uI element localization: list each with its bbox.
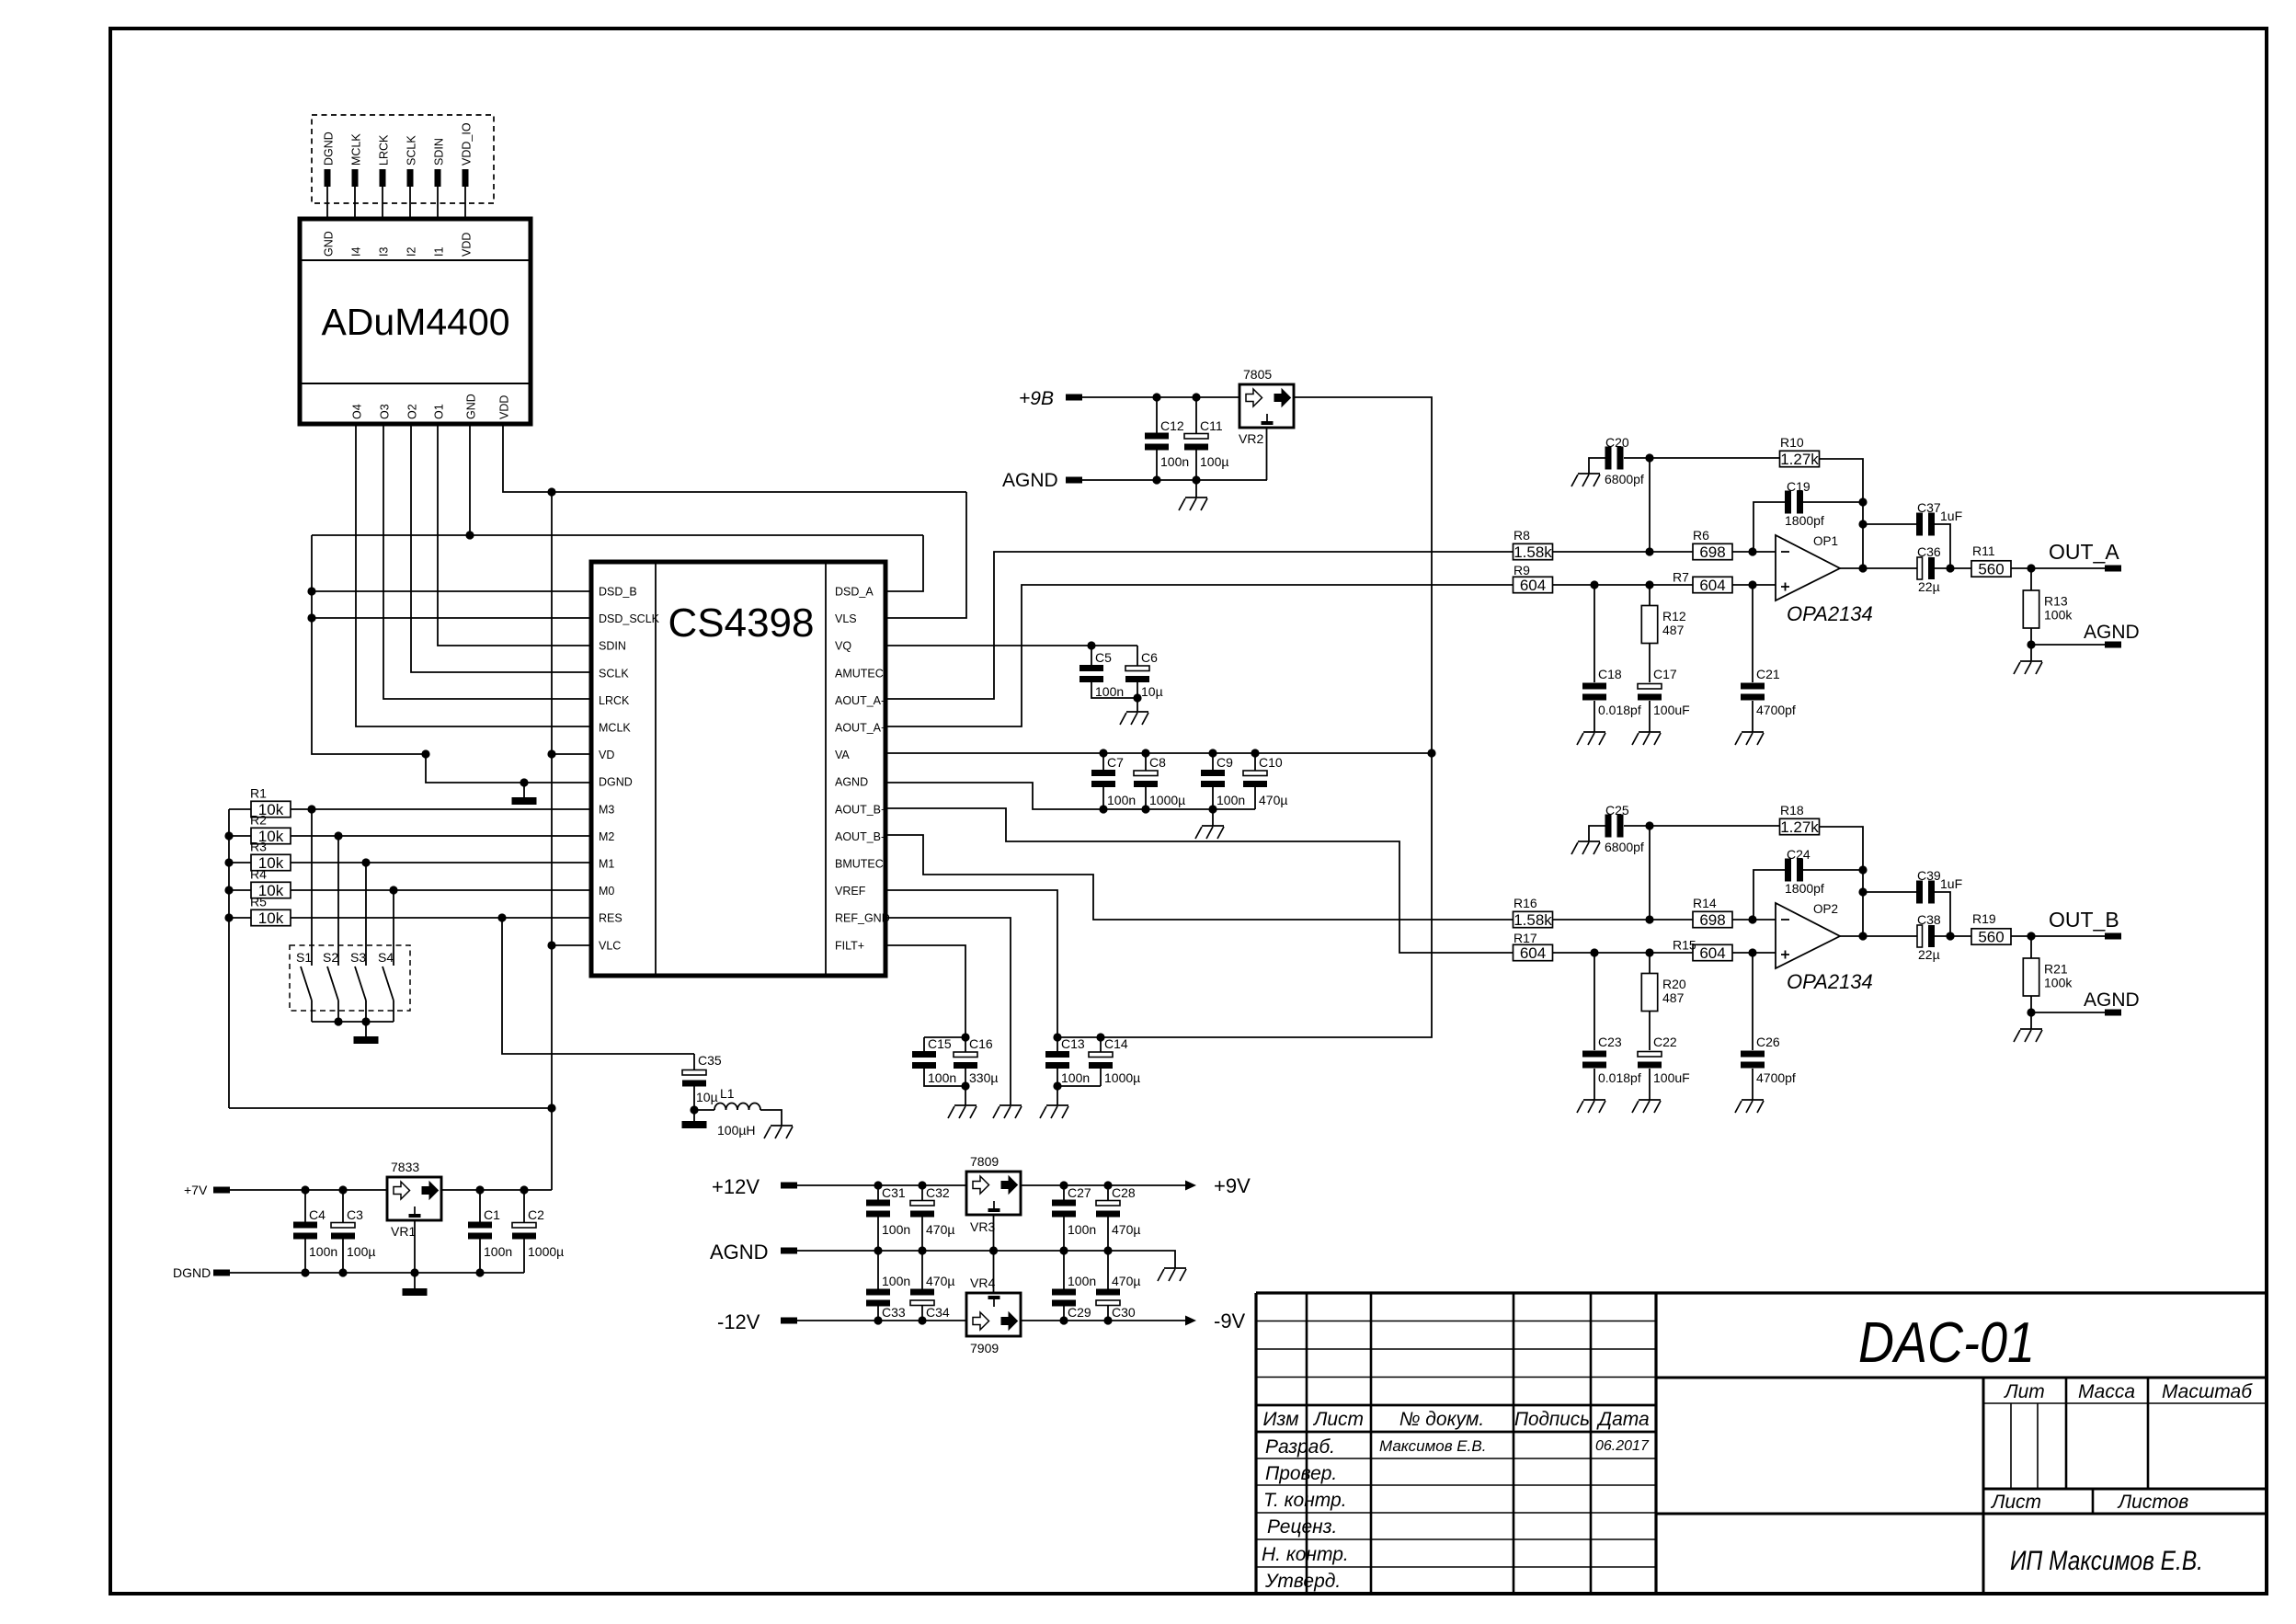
svg-text:BMUTEC: BMUTEC (835, 858, 884, 871)
junction C29 top (1059, 1246, 1068, 1254)
svg-text:487: 487 (1662, 623, 1685, 637)
svg-text:FILT+: FILT+ (835, 939, 864, 952)
svg-text:1.58k: 1.58k (1514, 543, 1552, 561)
wire C3 top stub (342, 1190, 344, 1223)
wire C33 top stub (877, 1251, 879, 1289)
junction C14 top (1096, 1033, 1104, 1041)
wire VR3 output (1021, 1184, 1185, 1186)
svg-text:I2: I2 (406, 247, 418, 257)
junction RES tap (497, 913, 506, 921)
svg-text:SCLK: SCLK (406, 135, 418, 166)
svg-text:OPA2134: OPA2134 (1787, 970, 1873, 993)
svg-text:100µH: 100µH (717, 1123, 756, 1138)
+9V output arrow (1185, 1181, 1196, 1191)
capacitor C28 470µ (1096, 1201, 1120, 1207)
capacitor C38 22µ (1917, 925, 1923, 947)
wire VD supply vertical (551, 492, 553, 1190)
capacitor C32 470µ (910, 1201, 934, 1207)
wire node A vertical (1649, 458, 1651, 552)
svg-text:1800pf: 1800pf (1785, 881, 1824, 896)
wire R4 row (229, 889, 591, 891)
svg-text:604: 604 (1699, 944, 1725, 962)
junction AGND node (2027, 1008, 2035, 1016)
junction C37 tap (1858, 887, 1867, 896)
title block (GOST) (1256, 1293, 2267, 1594)
wire C16 bottom stub (965, 1069, 966, 1105)
wire C13 gnd stub (1057, 1086, 1058, 1105)
junction R2 left junction (224, 831, 233, 840)
wire R10 out (1819, 459, 1863, 568)
svg-text:10µ: 10µ (1141, 684, 1163, 699)
svg-text:10k: 10k (258, 909, 284, 927)
svg-text:C31: C31 (882, 1185, 906, 1200)
switch block (dashed box) (290, 945, 410, 1011)
port OUT_B (2105, 933, 2121, 940)
svg-text:100n: 100n (484, 1244, 512, 1259)
junction R12 tap (1645, 948, 1653, 956)
title block column lines (1307, 1293, 1591, 1594)
input connector (dashed box) (312, 115, 494, 203)
svg-text:I3: I3 (378, 247, 391, 257)
svg-text:1uF: 1uF (1940, 876, 1962, 891)
junction C35/L1 node (690, 1105, 698, 1114)
wire AGND pin jog (885, 783, 1255, 809)
wire C18 column (1593, 585, 1595, 682)
svg-text:S2: S2 (323, 950, 338, 965)
switch S1 (301, 809, 312, 1022)
wire O1 to SDIN (438, 424, 591, 646)
svg-text:Масса: Масса (2078, 1381, 2135, 1402)
svg-text:4700pf: 4700pf (1756, 1070, 1796, 1085)
svg-text:100µ: 100µ (347, 1244, 375, 1259)
svg-text:1.58k: 1.58k (1514, 911, 1552, 929)
ground C21 (1735, 732, 1764, 745)
wire C5 bottom (1091, 682, 1137, 698)
wire C21 gnd stub (1752, 1069, 1753, 1100)
svg-text:C9: C9 (1217, 755, 1233, 770)
wire C1 bottom stub (479, 1240, 481, 1274)
svg-text:C27: C27 (1068, 1185, 1091, 1200)
wire VR1 output (441, 1189, 552, 1191)
junction C7 bottom (1099, 805, 1107, 813)
resistor R2 10k (251, 828, 291, 843)
svg-text:OUT_B: OUT_B (2049, 908, 2119, 932)
wire C31 top stub (877, 1185, 879, 1200)
resistor R6 698 (1693, 543, 1732, 559)
wire ADuM VDD rail (503, 424, 966, 492)
port AGND in (1066, 477, 1082, 484)
svg-text:560: 560 (1978, 929, 2004, 946)
svg-text:100µ: 100µ (1200, 454, 1228, 469)
svg-text:470µ: 470µ (1259, 793, 1287, 807)
svg-text:DSD_A: DSD_A (835, 586, 874, 599)
junction C19 out node (1858, 497, 1867, 506)
wire AOUT_A+ to R9 (885, 585, 1514, 726)
svg-text:Дата: Дата (1596, 1409, 1649, 1430)
svg-text:L1: L1 (720, 1086, 735, 1101)
capacitor C2 1000µ (512, 1223, 536, 1229)
wire C5 top stub (1091, 646, 1092, 665)
wire VLC pin (552, 944, 591, 946)
capacitor C39 1uF (1916, 881, 1923, 904)
wire +12V rail (797, 1184, 966, 1186)
wire C33 bottom stub (877, 1307, 879, 1321)
wire O4 to MCLK (356, 424, 591, 726)
junction C27 top (1059, 1181, 1068, 1189)
junction VDD node (547, 487, 555, 496)
svg-text:R5: R5 (250, 895, 267, 909)
resistor R20 487 (1641, 974, 1657, 1012)
svg-text:AGND: AGND (1002, 470, 1058, 491)
svg-text:O1: O1 (433, 404, 446, 419)
wire SCLK to ADuM4400 (409, 187, 411, 219)
svg-text:R16: R16 (1514, 896, 1537, 910)
junction C19 out node (1858, 865, 1867, 874)
svg-text:SDIN: SDIN (599, 640, 626, 653)
svg-text:698: 698 (1699, 911, 1725, 929)
svg-text:SDIN: SDIN (433, 138, 446, 166)
svg-text:C4: C4 (309, 1207, 326, 1222)
resistor R21 100k (2023, 958, 2039, 996)
resistor R11 560 (1971, 561, 2011, 577)
svg-text:AOUT_B+: AOUT_B+ (835, 803, 887, 816)
svg-text:VR1: VR1 (391, 1224, 416, 1239)
capacitor C16 330µ (954, 1052, 977, 1058)
svg-text:Лист: Лист (1990, 1492, 2041, 1513)
svg-text:DSD_SCLK: DSD_SCLK (599, 612, 660, 625)
wire C19 left (1753, 870, 1785, 920)
svg-text:100n: 100n (1068, 1222, 1096, 1237)
svg-text:ИП Максимов Е.В.: ИП Максимов Е.В. (2010, 1546, 2203, 1576)
junction GND jog junction (421, 749, 429, 758)
svg-text:C8: C8 (1149, 755, 1166, 770)
svg-text:GND: GND (323, 231, 336, 257)
capacitor C26 4700pf (1741, 1051, 1765, 1058)
svg-text:OP1: OP1 (1813, 534, 1838, 548)
wire C21 column (1752, 953, 1753, 1050)
capacitor C19 1800pf (1785, 491, 1791, 514)
svg-text:C37: C37 (1917, 500, 1941, 515)
wire C19 left (1753, 502, 1785, 552)
voltage regulator VR2 7805 (1239, 384, 1294, 428)
wire C3 bottom stub (342, 1240, 344, 1274)
svg-text:100n: 100n (1068, 1274, 1096, 1288)
junction C31 top (874, 1181, 882, 1189)
wire DSD_B tie (312, 590, 591, 592)
resistor R9 604 (1514, 577, 1553, 592)
junction C37 tap (1858, 520, 1867, 528)
junction C33 bottom (874, 1316, 882, 1324)
capacitor C10 470µ (1243, 771, 1267, 776)
wire C18 gnd stub (1593, 1069, 1595, 1100)
svg-text:C23: C23 (1598, 1035, 1622, 1049)
svg-text:22µ: 22µ (1918, 579, 1940, 594)
svg-text:1000µ: 1000µ (1149, 793, 1185, 807)
wire R2 row (229, 835, 591, 837)
svg-text:1.27k: 1.27k (1780, 451, 1819, 468)
svg-text:+9В: +9В (1019, 388, 1054, 409)
svg-text:1000µ: 1000µ (1104, 1070, 1140, 1085)
svg-text:C1: C1 (484, 1207, 500, 1222)
junction C29 bottom (1059, 1316, 1068, 1324)
svg-text:100k: 100k (2044, 976, 2073, 990)
wire R13 column (2030, 568, 2032, 645)
wire VR4 ground (993, 1251, 995, 1293)
ground C22 (1632, 1100, 1661, 1113)
svg-text:100n: 100n (882, 1222, 910, 1237)
svg-text:VDD: VDD (461, 233, 474, 257)
svg-text:C11: C11 (1200, 418, 1223, 433)
junction S3 tap (361, 858, 370, 866)
port AGND mid (781, 1248, 797, 1254)
wire C20 gnd stub (1589, 826, 1605, 841)
svg-text:VDD: VDD (498, 395, 511, 419)
svg-text:22µ: 22µ (1918, 947, 1940, 962)
junction out node (1858, 564, 1867, 572)
svg-text:698: 698 (1699, 543, 1725, 561)
wire C2 top stub (523, 1190, 525, 1223)
wire C36 right (1934, 935, 2105, 937)
wire VR3 ground (993, 1215, 995, 1251)
capacitor C37 1uF (1916, 513, 1923, 536)
port OUT_A (2105, 566, 2121, 572)
svg-text:100n: 100n (1217, 793, 1245, 807)
wire C11 top stub (1195, 397, 1197, 434)
svg-text:R6: R6 (1693, 528, 1709, 543)
svg-text:I1: I1 (433, 247, 446, 257)
junction C20/R10 node (1645, 453, 1653, 462)
wire C27 top stub (1063, 1185, 1065, 1200)
resistor R4 10k (251, 882, 291, 898)
svg-text:100uF: 100uF (1653, 1070, 1690, 1085)
junction DSD_B junction (307, 587, 315, 595)
capacitor C23 0.018pf (1582, 1051, 1606, 1058)
junction C19 tap (1748, 915, 1756, 923)
wire VDD_IO to ADuM4400 (464, 187, 466, 219)
resistor R15 604 (1693, 944, 1732, 960)
ground (bar) DGND (512, 797, 537, 805)
wire LRCK to ADuM4400 (382, 187, 383, 219)
junction C32 top (918, 1181, 926, 1189)
svg-text:100k: 100k (2044, 608, 2073, 623)
svg-text:AGND: AGND (710, 1241, 769, 1264)
svg-text:C30: C30 (1112, 1305, 1136, 1320)
svg-text:C39: C39 (1917, 868, 1941, 883)
wire VA rail (885, 752, 1432, 754)
svg-text:VDD_IO: VDD_IO (461, 122, 474, 166)
wire C9 gnd stub (1212, 809, 1214, 826)
wire C32 top stub (921, 1185, 923, 1201)
capacitor C5 100n (1079, 665, 1103, 671)
svg-text:REF_GND: REF_GND (835, 912, 890, 925)
wire R12 column (1649, 585, 1651, 682)
svg-text:-12V: -12V (717, 1310, 760, 1333)
junction S2 tap (334, 831, 342, 840)
wire switch common (312, 1021, 394, 1023)
svg-text:C17: C17 (1653, 667, 1677, 681)
junction C12 bottom (1152, 475, 1160, 484)
junction C30 top (1103, 1246, 1112, 1254)
wire VR2 ground (1266, 428, 1268, 480)
svg-text:C22: C22 (1653, 1035, 1677, 1049)
svg-text:SCLK: SCLK (599, 667, 629, 680)
wire cap stub (1212, 787, 1214, 809)
wire +9B rail (1082, 396, 1239, 398)
junction AGND node (2027, 640, 2035, 648)
svg-text:R2: R2 (250, 813, 267, 828)
-9V output arrow (1185, 1316, 1196, 1326)
svg-text:Максимов Е.В.: Максимов Е.В. (1379, 1437, 1486, 1455)
capacitor C14 1000µ (1089, 1052, 1113, 1058)
svg-text:604: 604 (1520, 944, 1546, 962)
svg-text:C7: C7 (1107, 755, 1124, 770)
svg-text:C3: C3 (347, 1207, 363, 1222)
resistor R10 1.27k (1780, 451, 1820, 466)
resistor R14 698 (1693, 911, 1732, 927)
svg-text:10µ: 10µ (696, 1090, 718, 1104)
port DGND (213, 1270, 230, 1276)
ground AGND 7805 (1179, 497, 1207, 510)
capacitor C22 100uF (1638, 1052, 1662, 1058)
svg-text:+9V: +9V (1214, 1174, 1251, 1197)
wire R13 gnd stub (2030, 645, 2032, 661)
junction C9 top (1208, 749, 1217, 757)
svg-text:470µ: 470µ (926, 1274, 954, 1288)
svg-text:OUT_A: OUT_A (2049, 540, 2119, 564)
resistor R3 10k (251, 854, 291, 870)
svg-text:+12V: +12V (712, 1175, 760, 1198)
svg-text:C29: C29 (1068, 1305, 1091, 1320)
wire C12 top stub (1156, 397, 1158, 433)
wire cap stub (1212, 753, 1214, 770)
capacitor C1 100n (468, 1222, 492, 1229)
wire pull-up bus bottom (229, 1107, 552, 1109)
junction R4 left junction (224, 886, 233, 894)
svg-text:MCLK: MCLK (599, 722, 631, 735)
wire C16 top stub (965, 1037, 966, 1052)
wire DSD_SCLK tie (312, 617, 591, 619)
title block right section lines (1656, 1378, 2267, 1594)
voltage regulator VR3 7809 (966, 1172, 1021, 1215)
wire ADuM GND down (469, 424, 471, 535)
wire C15 top stub (923, 1037, 925, 1051)
wire C4 bottom stub (304, 1240, 306, 1274)
svg-text:C26: C26 (1756, 1035, 1780, 1049)
wire C35 top (693, 1054, 695, 1069)
svg-text:C35: C35 (698, 1053, 722, 1068)
connector pin SCLK (407, 169, 414, 187)
svg-text:Т. контр.: Т. контр. (1263, 1490, 1347, 1511)
wire GND drop left (312, 535, 426, 754)
svg-text:M0: M0 (599, 885, 614, 898)
wire R10 out (1819, 827, 1863, 936)
svg-text:LRCK: LRCK (599, 694, 630, 707)
svg-text:R3: R3 (250, 840, 267, 854)
junction VD junction (547, 749, 555, 758)
svg-text:Н. контр.: Н. контр. (1262, 1544, 1349, 1565)
ground (bar) switch common (354, 1036, 379, 1044)
svg-text:R8: R8 (1514, 528, 1530, 543)
ground C5 C6 (1120, 712, 1148, 725)
capacitor C21 4700pf (1741, 683, 1765, 690)
svg-text:ADuM4400: ADuM4400 (321, 301, 509, 343)
connector pin LRCK (380, 169, 386, 187)
port +7V (213, 1187, 230, 1194)
wire C37 left (1863, 523, 1917, 525)
svg-text:R18: R18 (1780, 803, 1804, 818)
port +9B (1066, 395, 1082, 401)
capacitor C25 6800pf (1605, 815, 1612, 838)
svg-text:O2: O2 (406, 404, 419, 419)
svg-text:604: 604 (1520, 577, 1546, 594)
svg-text:Разраб.: Разраб. (1265, 1436, 1335, 1458)
svg-text:C13: C13 (1061, 1036, 1085, 1051)
svg-text:100n: 100n (928, 1070, 956, 1085)
junction C34 bottom (918, 1316, 926, 1324)
wire C20 row (1624, 825, 1780, 827)
svg-text:VR4: VR4 (970, 1275, 995, 1290)
wire R3 row (229, 862, 591, 863)
wire DGND to ADuM4400 (326, 187, 328, 219)
switch S3 (355, 863, 366, 1022)
svg-text:7805: 7805 (1243, 367, 1272, 382)
junction node A (1645, 547, 1653, 555)
pull-up bus left (228, 809, 230, 1108)
junction C18 tap (1590, 948, 1598, 956)
wire cap stub (1145, 753, 1147, 771)
wire MCLK to ADuM4400 (354, 187, 356, 219)
wire C37 right (1934, 524, 1950, 568)
svg-text:R9: R9 (1514, 563, 1530, 578)
capacitor C17 100uF (1638, 684, 1662, 690)
capacitor C30 470µ (1096, 1289, 1120, 1296)
svg-text:C28: C28 (1112, 1185, 1136, 1200)
resistor R13 100k (2023, 590, 2039, 628)
svg-text:470µ: 470µ (926, 1222, 954, 1237)
wire cap stub (1102, 787, 1104, 809)
capacitor C29 100n (1052, 1289, 1076, 1296)
junction C19 tap (1748, 547, 1756, 555)
junction C4 top (301, 1185, 309, 1194)
wire AGND mid rail (797, 1251, 1175, 1268)
svg-text:Масштаб: Масштаб (2162, 1381, 2253, 1402)
wire VD pin (552, 753, 591, 755)
svg-text:R11: R11 (1972, 543, 1995, 558)
ground C26 (1735, 1100, 1764, 1113)
ground C25 (1571, 841, 1600, 854)
svg-text:6800pf: 6800pf (1605, 472, 1644, 486)
junction C9 bottom (1208, 805, 1217, 813)
IC CS4398 DAC (591, 562, 885, 976)
ground AGND mid (1158, 1268, 1186, 1281)
wire AGND out (2031, 644, 2105, 646)
switch S4 (383, 890, 394, 1022)
svg-text:Провер.: Провер. (1265, 1463, 1337, 1484)
wire C35 bottom (693, 1086, 695, 1121)
wire C37 left (1863, 891, 1917, 893)
svg-text:AGND: AGND (2084, 989, 2140, 1011)
wire AOUT_A- to R8 (885, 552, 1514, 699)
wire R13 column (2030, 936, 2032, 1012)
svg-text:M1: M1 (599, 858, 614, 871)
svg-text:VR3: VR3 (970, 1219, 995, 1234)
svg-text:R4: R4 (250, 867, 267, 882)
svg-text:100n: 100n (1061, 1070, 1090, 1085)
svg-text:R19: R19 (1972, 911, 1996, 926)
svg-text:6800pf: 6800pf (1605, 840, 1644, 854)
svg-text:C25: C25 (1605, 803, 1629, 818)
svg-text:S4: S4 (378, 950, 394, 965)
